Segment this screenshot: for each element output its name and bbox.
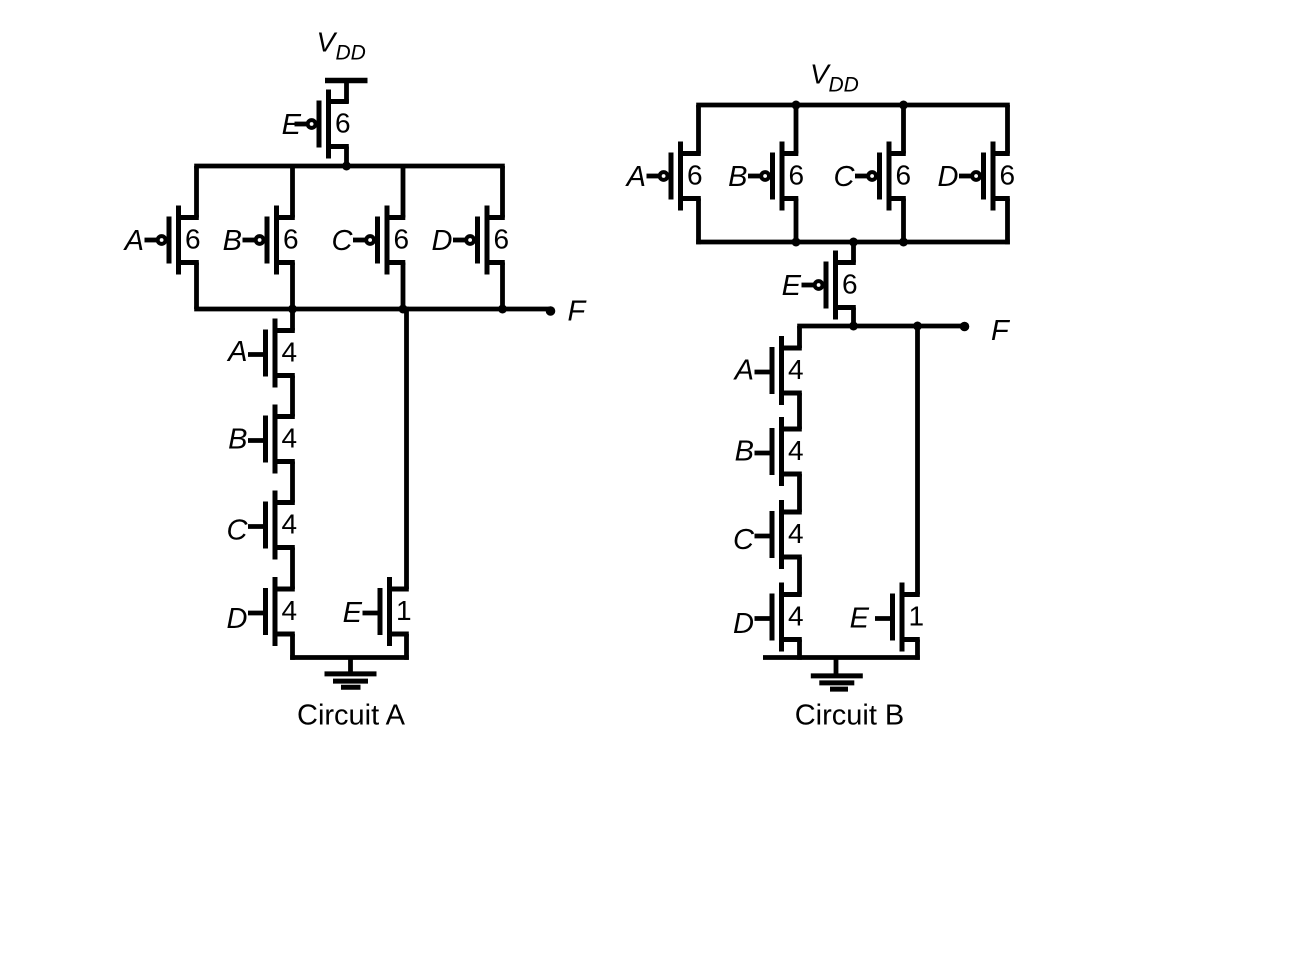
svg-text:4: 4 xyxy=(788,601,804,632)
svg-text:E: E xyxy=(782,270,802,302)
transistor MNC_B (NMOS C, W/L=4, Circuit B) xyxy=(755,500,802,569)
svg-text:A: A xyxy=(123,225,144,257)
svg-text:6: 6 xyxy=(896,160,912,191)
wire PMOS E source up to mid rail (Circuit B) xyxy=(851,240,856,263)
wire PMOS E drain down to output rail (Circuit B) xyxy=(851,308,856,329)
svg-text:6: 6 xyxy=(185,224,201,255)
node output terminal F (Circuit B) xyxy=(960,322,970,332)
wire drain of PMOS C to output rail (Circuit A) xyxy=(401,263,406,310)
svg-text:D: D xyxy=(938,161,959,193)
node mid rail / PMOS E source (Circuit B) xyxy=(849,238,858,247)
wire source of PMOS A to top rail (Circuit A) xyxy=(194,166,199,218)
wire NMOS B source to NMOS C drain (Circuit A) xyxy=(290,462,295,503)
transistor MPE_B (PMOS E, W/L=6, Circuit B) xyxy=(802,251,856,320)
svg-text:6: 6 xyxy=(687,160,703,191)
wire drain of PMOS C to mid rail (Circuit B) xyxy=(901,199,906,245)
wire VDD stem to PMOS E source (Circuit A) xyxy=(344,81,349,104)
svg-text:4: 4 xyxy=(282,595,298,626)
wire ground wire (Circuit A) xyxy=(290,655,409,660)
transistor MPA_B (PMOS A, W/L=6, Circuit B) xyxy=(647,142,701,211)
svg-text:C: C xyxy=(834,161,856,193)
wire mid rail joining PMOS drains (Circuit B) xyxy=(696,240,1010,245)
wire top rail of parallel PMOS group (Circuit A) xyxy=(194,164,505,169)
svg-text:V: V xyxy=(317,27,338,58)
svg-text:4: 4 xyxy=(282,337,298,368)
svg-text:B: B xyxy=(728,161,747,193)
svg-text:6: 6 xyxy=(1000,160,1016,191)
transistor MNE_B (NMOS E, W/L=1, Circuit B) xyxy=(875,583,920,652)
svg-text:DD: DD xyxy=(829,74,859,97)
svg-text:4: 4 xyxy=(788,435,804,466)
wire source of PMOS D to VDD rail (Circuit B) xyxy=(1005,105,1010,154)
svg-text:Circuit A: Circuit A xyxy=(297,700,406,732)
transistor MND_A (NMOS D, W/L=4, Circuit A) xyxy=(248,577,295,646)
ground symbol (Circuit B) xyxy=(811,658,863,690)
power VDD symbol T-bar (Circuit A) xyxy=(325,78,368,84)
svg-text:6: 6 xyxy=(494,224,510,255)
svg-text:4: 4 xyxy=(282,509,298,540)
transistor MPC_B (PMOS C, W/L=6, Circuit B) xyxy=(855,142,906,211)
svg-text:E: E xyxy=(850,603,870,635)
svg-text:C: C xyxy=(227,515,249,547)
svg-text:C: C xyxy=(332,225,354,257)
transistor MNC_A (NMOS C, W/L=4, Circuit A) xyxy=(248,491,295,560)
wire source of PMOS B to VDD rail (Circuit B) xyxy=(794,105,799,154)
svg-text:D: D xyxy=(733,608,754,640)
node junction NMOS chain / output rail (Circuit A) xyxy=(288,305,297,314)
svg-text:C: C xyxy=(733,524,755,556)
wire NMOS C source to NMOS D drain (Circuit B) xyxy=(797,557,802,595)
wire drain of PMOS B to mid rail (Circuit B) xyxy=(794,199,799,245)
svg-text:6: 6 xyxy=(842,269,858,300)
wire output rail to NMOS A drain (Circuit A) xyxy=(290,307,295,331)
wire drain of PMOS D to mid rail (Circuit B) xyxy=(1005,199,1010,245)
svg-text:A: A xyxy=(733,355,754,387)
transistor MPE_A (PMOS E, W/L=6, Circuit A) xyxy=(295,90,349,159)
wire NMOS B source to NMOS C drain (Circuit B) xyxy=(797,474,802,512)
svg-text:6: 6 xyxy=(283,224,299,255)
node output rail / NMOS E drain (Circuit B) xyxy=(913,322,922,331)
node junction PMOS D drain (Circuit A) xyxy=(498,305,507,314)
transistor MNB_A (NMOS B, W/L=4, Circuit A) xyxy=(248,405,295,474)
wire source of PMOS B to top rail (Circuit A) xyxy=(290,166,295,218)
wire NMOS D source down to ground wire (Circuit A) xyxy=(290,634,295,660)
transistor MPD_B (PMOS D, W/L=6, Circuit B) xyxy=(959,142,1010,211)
wire VDD top rail (Circuit B) xyxy=(696,103,1010,108)
wire output rail F (Circuit A) xyxy=(194,307,549,312)
wire NMOS A source to NMOS B drain (Circuit A) xyxy=(290,376,295,417)
transistor MPC_A (PMOS C, W/L=6, Circuit A) xyxy=(353,206,405,275)
svg-text:E: E xyxy=(282,109,302,141)
svg-text:4: 4 xyxy=(788,518,804,549)
wire ground wire (Circuit B) xyxy=(763,655,920,660)
wire drain of PMOS B to output rail (Circuit A) xyxy=(290,263,295,310)
wire NMOS E source down to ground wire (Circuit A) xyxy=(404,634,409,660)
svg-text:B: B xyxy=(228,424,247,456)
node mid rail / PMOS B drain (Circuit B) xyxy=(792,238,801,247)
wire NMOS D source down to ground wire (Circuit B) xyxy=(797,640,802,660)
node junction PMOS C drain / NMOS E drain (Circuit A) xyxy=(399,305,408,314)
node mid rail / PMOS C drain (Circuit B) xyxy=(899,238,908,247)
wire NMOS E drain up to output rail (Circuit B) xyxy=(915,324,920,595)
svg-text:D: D xyxy=(432,225,453,257)
wire drain of PMOS D to output rail (Circuit A) xyxy=(500,263,505,310)
wire source of PMOS C to top rail (Circuit A) xyxy=(401,166,406,218)
wire NMOS E source down to ground wire (Circuit B) xyxy=(915,640,920,660)
svg-text:Circuit B: Circuit B xyxy=(795,700,905,732)
wire source of PMOS A to VDD rail (Circuit B) xyxy=(696,105,701,154)
ground symbol (Circuit A) xyxy=(325,658,377,688)
wire output rail to NMOS A drain (Circuit B) xyxy=(797,326,802,348)
wire NMOS C source to NMOS D drain (Circuit A) xyxy=(290,548,295,590)
svg-text:4: 4 xyxy=(788,354,804,385)
svg-text:1: 1 xyxy=(396,595,412,626)
wire NMOS A source to NMOS B drain (Circuit B) xyxy=(797,393,802,429)
svg-text:B: B xyxy=(735,436,754,468)
svg-text:6: 6 xyxy=(394,224,410,255)
transistor MPB_A (PMOS B, W/L=6, Circuit A) xyxy=(243,206,295,275)
node output rail / PMOS E drain (Circuit B) xyxy=(849,322,858,331)
transistor MNA_A (NMOS A, W/L=4, Circuit A) xyxy=(248,319,295,388)
svg-text:A: A xyxy=(226,336,247,368)
svg-text:6: 6 xyxy=(335,108,351,139)
svg-text:A: A xyxy=(625,161,646,193)
wire PMOS E drain to top rail (Circuit A) xyxy=(344,147,349,169)
svg-text:DD: DD xyxy=(336,42,366,65)
svg-text:1: 1 xyxy=(909,601,925,632)
wire output rail F (Circuit B) xyxy=(797,324,963,329)
svg-text:E: E xyxy=(343,597,363,629)
svg-text:D: D xyxy=(227,603,248,635)
wire drain of PMOS A to mid rail (Circuit B) xyxy=(696,199,701,245)
wire NMOS E drain up to output rail (Circuit A) xyxy=(404,307,409,589)
wire source of PMOS D to top rail (Circuit A) xyxy=(500,166,505,218)
transistor MPA_A (PMOS A, W/L=6, Circuit A) xyxy=(145,206,199,275)
node top-rail / PMOS E junction (Circuit A) xyxy=(342,162,351,171)
transistor MND_B (NMOS D, W/L=4, Circuit B) xyxy=(755,583,802,652)
transistor MNE_A (NMOS E, W/L=1, Circuit A) xyxy=(363,577,409,646)
svg-text:6: 6 xyxy=(789,160,805,191)
wire source of PMOS C to VDD rail (Circuit B) xyxy=(901,105,906,154)
transistor MNB_B (NMOS B, W/L=4, Circuit B) xyxy=(755,417,802,486)
transistor MPB_B (PMOS B, W/L=6, Circuit B) xyxy=(748,142,798,211)
node output terminal F (Circuit A) xyxy=(546,306,556,316)
svg-text:B: B xyxy=(223,225,242,257)
transistor MNA_B (NMOS A, W/L=4, Circuit B) xyxy=(755,336,802,405)
svg-text:F: F xyxy=(568,296,588,328)
wire drain of PMOS A to output rail (Circuit A) xyxy=(194,263,199,310)
svg-text:F: F xyxy=(991,315,1011,347)
node VDD rail / PMOS C junction (Circuit B) xyxy=(899,101,908,110)
svg-text:4: 4 xyxy=(282,423,298,454)
transistor MPD_A (PMOS D, W/L=6, Circuit A) xyxy=(453,206,505,275)
node VDD rail / PMOS B junction (Circuit B) xyxy=(792,101,801,110)
